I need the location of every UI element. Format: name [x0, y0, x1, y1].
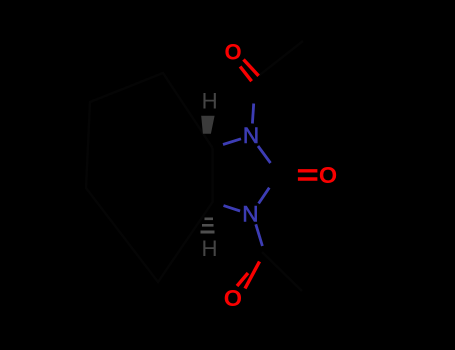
- svg-text:N: N: [243, 123, 259, 148]
- svg-text:H: H: [201, 236, 217, 261]
- svg-text:O: O: [319, 162, 337, 188]
- svg-text:H: H: [202, 89, 218, 114]
- svg-text:O: O: [225, 40, 242, 65]
- svg-text:O: O: [224, 285, 242, 311]
- svg-text:N: N: [242, 202, 258, 227]
